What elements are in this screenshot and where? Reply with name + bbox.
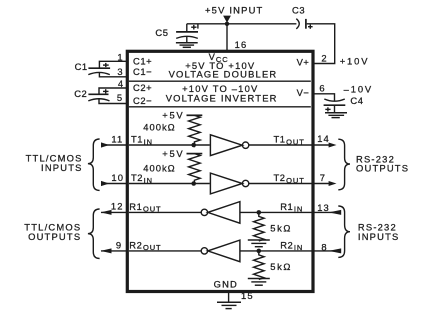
wire R1OUT inside xyxy=(129,211,201,213)
wire pin7 outside xyxy=(313,183,330,185)
arrow pin9 xyxy=(101,248,112,253)
wire pin4 xyxy=(99,88,127,94)
wire pin1 xyxy=(99,61,126,68)
svg-text:VOLTAGE DOUBLER: VOLTAGE DOUBLER xyxy=(169,69,278,80)
op-amp R2 receiver xyxy=(201,248,207,254)
op-amp U1 MAX232 body box xyxy=(127,51,313,291)
op-amp T1 driver xyxy=(210,135,242,156)
wire pin13 outside xyxy=(313,211,341,213)
ground pin15 xyxy=(217,302,241,308)
wire T2IN outside xyxy=(102,183,127,185)
capacitor C5 xyxy=(176,24,198,43)
brace TTL/CMOS outputs xyxy=(88,209,100,259)
svg-text:C2+: C2+ xyxy=(133,82,152,93)
brace RS-232 inputs xyxy=(338,206,350,257)
wire R1OUT outside xyxy=(101,211,127,213)
svg-text:400kΩ: 400kΩ xyxy=(143,162,175,173)
separator line inverter section xyxy=(129,106,311,108)
wire R2OUT outside xyxy=(101,250,127,252)
svg-text:+5V: +5V xyxy=(162,110,184,121)
svg-text:9: 9 xyxy=(116,240,122,251)
wire pin16 drop xyxy=(226,24,228,51)
svg-text:C4: C4 xyxy=(350,95,363,106)
arrow pin12 xyxy=(101,210,112,215)
wire R2IN inside xyxy=(240,250,312,252)
capacitor C3 xyxy=(296,19,312,29)
svg-text:3: 3 xyxy=(117,66,123,77)
svg-text:5kΩ: 5kΩ xyxy=(270,261,292,272)
svg-text:C2−: C2− xyxy=(133,95,152,106)
ground C5 xyxy=(176,43,198,48)
wire T1IN inside xyxy=(129,144,210,146)
resistor 400k (T2) xyxy=(189,154,201,186)
wire T2OUT inside xyxy=(249,183,312,185)
wire pin15 stub xyxy=(228,293,230,302)
svg-text:10: 10 xyxy=(111,172,124,183)
svg-text:+5V: +5V xyxy=(162,148,184,159)
wire pin14 outside xyxy=(313,144,330,146)
svg-text:5: 5 xyxy=(117,92,123,103)
wire pin5 xyxy=(99,98,127,103)
wire T2IN inside xyxy=(129,183,210,185)
svg-text:12: 12 xyxy=(111,201,124,212)
separator line doubler section xyxy=(129,80,311,82)
svg-text:–10V: –10V xyxy=(344,84,374,95)
svg-text:OUTPUTS: OUTPUTS xyxy=(28,231,81,242)
wire pin8 outside xyxy=(313,250,341,252)
ground R2 xyxy=(248,279,270,286)
svg-text:+5V INPUT: +5V INPUT xyxy=(205,4,263,15)
resistor 5k (R1) xyxy=(253,212,264,241)
svg-text:14: 14 xyxy=(317,133,330,144)
svg-text:400kΩ: 400kΩ xyxy=(143,121,175,132)
svg-text:C2: C2 xyxy=(74,88,87,99)
svg-text:GND: GND xyxy=(214,278,238,289)
svg-text:15: 15 xyxy=(241,290,254,301)
arrow pin14 xyxy=(329,143,337,148)
arrow pin7 xyxy=(329,181,337,186)
svg-text:VOLTAGE INVERTER: VOLTAGE INVERTER xyxy=(166,92,278,103)
svg-text:2: 2 xyxy=(321,52,327,63)
resistor 400k (T1) xyxy=(189,115,201,147)
op-amp R1 receiver xyxy=(201,209,207,215)
svg-text:INPUTS: INPUTS xyxy=(358,231,400,242)
svg-text:V−: V− xyxy=(297,87,310,98)
op-amp T2 driver xyxy=(210,173,242,194)
resistor 5k (R2) xyxy=(253,251,264,280)
svg-text:C1: C1 xyxy=(75,61,88,72)
svg-text:C5: C5 xyxy=(155,27,168,38)
svg-text:INPUTS: INPUTS xyxy=(41,162,83,173)
wire T1IN outside xyxy=(102,144,127,146)
svg-text:5kΩ: 5kΩ xyxy=(270,222,292,233)
wire R2OUT inside xyxy=(129,250,201,252)
+5V input arrow xyxy=(223,16,231,23)
svg-text:V+: V+ xyxy=(297,56,310,67)
arrow pin13 xyxy=(329,210,342,215)
svg-text:OUTPUTS: OUTPUTS xyxy=(356,162,409,173)
arrow pin10 xyxy=(101,181,109,186)
wire pin3 xyxy=(99,72,126,77)
svg-text:C1−: C1− xyxy=(133,66,152,77)
svg-text:16: 16 xyxy=(235,39,248,50)
arrow pin11 xyxy=(101,142,109,147)
node junction T1IN xyxy=(191,143,196,148)
arrow pin8 xyxy=(329,248,342,253)
capacitor C4 xyxy=(324,99,346,113)
svg-text:6: 6 xyxy=(319,82,325,93)
node junction T2IN xyxy=(191,181,196,186)
brace TTL/CMOS inputs xyxy=(88,139,100,190)
node junction R1IN xyxy=(257,210,262,215)
brace RS-232 outputs xyxy=(338,139,350,190)
wire T1OUT inside xyxy=(249,144,312,146)
ground C4 xyxy=(325,113,347,118)
capacitor C1 xyxy=(88,63,110,75)
svg-text:C3: C3 xyxy=(292,4,305,15)
svg-text:11: 11 xyxy=(111,133,123,144)
wire C3 to V+ xyxy=(307,24,335,64)
svg-text:7: 7 xyxy=(320,172,326,183)
svg-text:+10V: +10V xyxy=(340,56,370,67)
ground R1 xyxy=(248,240,270,247)
wire R1IN inside xyxy=(240,211,312,213)
wire +5V rail xyxy=(187,23,297,25)
node junction R2IN xyxy=(257,249,262,254)
wire pin6 to C4 xyxy=(312,94,335,101)
capacitor C2 xyxy=(88,89,109,101)
svg-text:13: 13 xyxy=(317,202,330,213)
node junction +5V rail xyxy=(225,22,229,26)
